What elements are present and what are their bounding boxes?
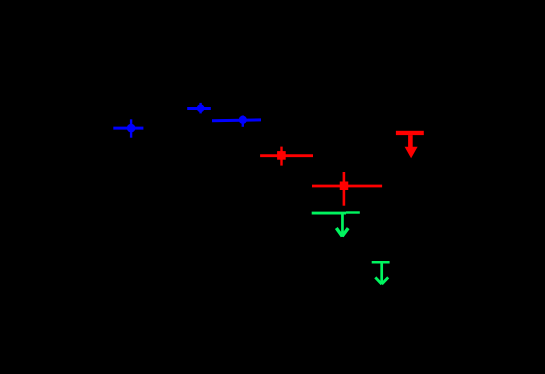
red upper-limit arrow	[396, 131, 424, 159]
green upper limit 2	[372, 262, 390, 284]
blue data point 2	[187, 103, 211, 114]
blue data point 1	[113, 119, 143, 137]
red data point 2	[312, 172, 382, 206]
blue data point 3	[212, 116, 261, 127]
red data point 1	[260, 147, 313, 166]
green upper limit 1	[312, 213, 360, 237]
